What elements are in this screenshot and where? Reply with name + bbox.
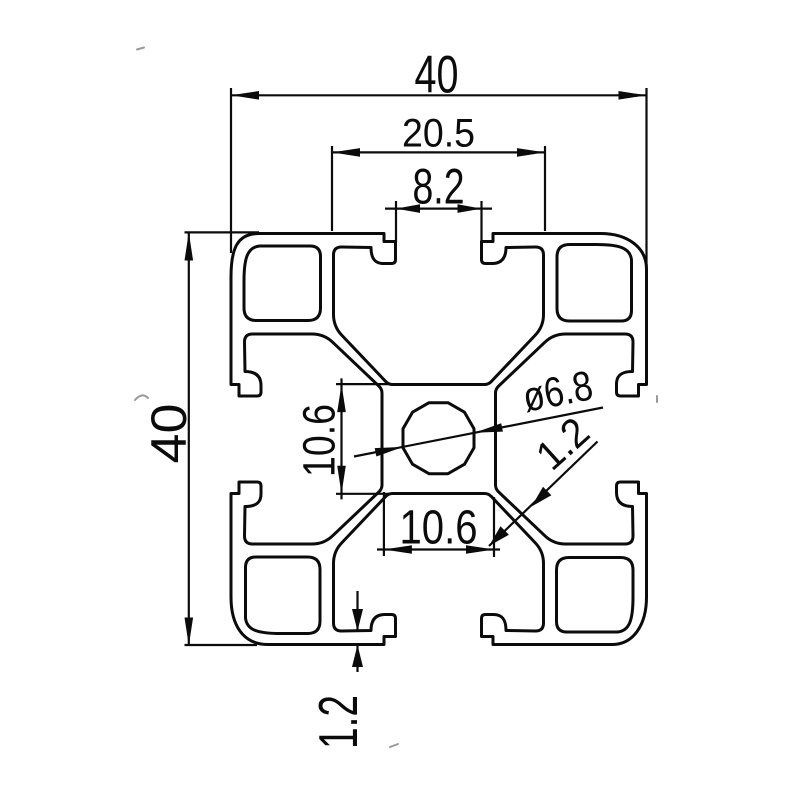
dim 8.2: dimension line	[385, 208, 492, 210]
corner cavity NE	[557, 245, 632, 322]
corner cavity SW	[246, 557, 321, 634]
dim 1.2 bottom: dimension line segments	[356, 591, 358, 672]
dim 20.5: extension lines	[332, 146, 545, 231]
scan artifact dash bottom	[390, 744, 398, 747]
dim 10.6 bottom: dimension line	[377, 548, 500, 550]
arrows dim 10.6 vertical	[337, 384, 346, 412]
dim 20.5: dimension line	[332, 151, 545, 153]
arrows dim 20.5	[332, 148, 360, 157]
svg-text:10.6: 10.6	[294, 404, 345, 477]
dim 10.6 vertical: dimension line	[340, 378, 342, 499]
arrows leader 1.2 at web faces	[532, 487, 552, 507]
dim 40 left: dimension line	[188, 233, 190, 646]
svg-text:1.2: 1.2	[307, 695, 369, 749]
dim 40 left: extension lines	[185, 232, 260, 645]
dim 10.6 vertical: extension lines	[336, 384, 420, 494]
dim 10.6 bottom: extension lines	[384, 492, 494, 557]
scan artifact curve left	[135, 395, 148, 400]
arrows dim 10.6 bottom	[384, 545, 412, 554]
dim 40 top: dimension line	[231, 94, 647, 96]
svg-text:40: 40	[415, 46, 459, 105]
scan artifact tick right	[656, 396, 658, 402]
leader 1.2 wall	[489, 442, 598, 547]
dim 40 top: extension lines	[231, 88, 647, 266]
arrows dim 1.2 bottom	[352, 609, 363, 631]
svg-text:40: 40	[141, 404, 197, 464]
dim 8.2: extension lines	[396, 201, 482, 242]
svg-text:10.6: 10.6	[400, 502, 478, 555]
svg-text:20.5: 20.5	[402, 112, 475, 156]
center hole o6.8 (dodecagon)	[403, 403, 474, 474]
leader o6.8	[354, 408, 603, 457]
profile outer contour with four T-slots	[231, 234, 647, 645]
arrows leader o6.8 at hole edges	[375, 447, 403, 457]
arrows dim 40 top	[231, 91, 259, 100]
arrows dim 8.2	[396, 204, 420, 213]
scan artifact dash top-left	[137, 48, 144, 50]
corner cavity NW	[244, 246, 321, 321]
arrows dim 40 left	[185, 233, 194, 261]
corner cavity SE	[557, 558, 634, 633]
svg-text:8.2: 8.2	[413, 159, 465, 215]
